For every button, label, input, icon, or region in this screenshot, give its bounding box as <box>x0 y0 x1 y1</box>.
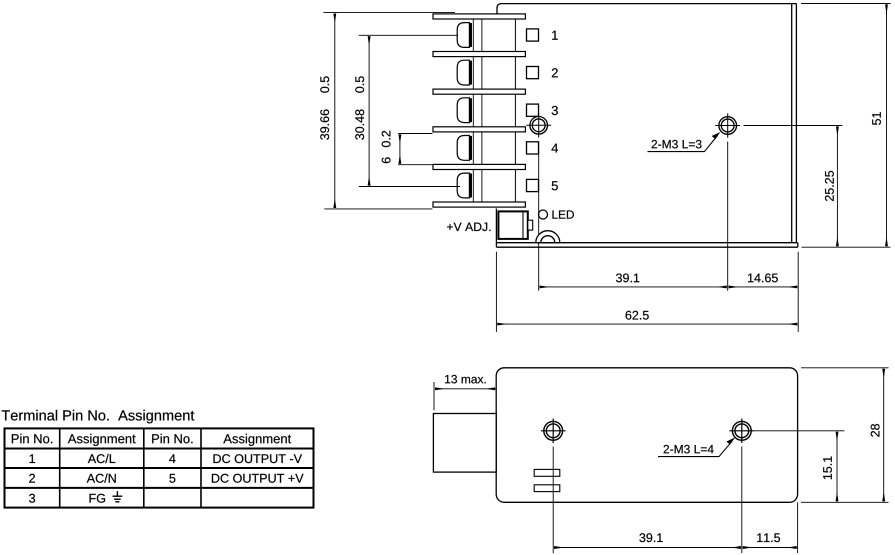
potentiometer +V ADJ <box>447 211 533 239</box>
LED indicator <box>539 210 574 219</box>
dimension 25.25 <box>825 126 837 246</box>
table row 3 <box>29 494 105 503</box>
earth ground symbol after FG <box>113 491 123 502</box>
dimension 39.66 0.5 extension lines <box>324 12 456 14</box>
mounting hole H3 bottom view <box>541 419 566 443</box>
top view chassis outline <box>496 4 797 248</box>
table row 2 <box>29 473 303 482</box>
pin number labels 1-5 <box>551 31 558 191</box>
leader 2-M3 L=4 <box>658 437 735 456</box>
dimension 30.48 0.5 extension lines <box>359 34 458 36</box>
table title <box>2 410 195 424</box>
bottom view chassis outline <box>496 368 797 503</box>
table row 1 <box>30 454 302 463</box>
table row 0 <box>12 434 291 446</box>
dimension 11.5 <box>743 533 797 547</box>
dimension 6 0.2 extension lines <box>398 133 432 135</box>
dimension 28 <box>871 369 884 502</box>
H2 vertical centerline <box>727 142 729 291</box>
dimension extension lines below top view <box>495 252 497 332</box>
H2 horizontal centerline extension <box>744 125 843 127</box>
mounting hole H4 bottom view <box>729 419 754 443</box>
dimension 13 max <box>434 375 495 410</box>
terminal screws <box>457 23 471 198</box>
terminal block cell vertical lines <box>473 19 515 202</box>
dimension 39.1 top view <box>540 273 727 286</box>
bottom view terminal block <box>433 414 496 473</box>
H1 vertical centerline <box>538 142 540 291</box>
terminal pin assignment table <box>5 428 314 507</box>
dimension 62.5 <box>497 311 797 324</box>
H4 horizontal centerline extension <box>754 430 844 432</box>
dimension 15.1 <box>823 432 837 502</box>
dimension 39.66 0.5 <box>320 14 335 209</box>
pin squares 1-5 <box>527 29 539 192</box>
dimension 51 extension lines <box>801 3 891 5</box>
bottom view right extension line <box>797 502 799 553</box>
dimension 30.48 0.5 <box>355 36 369 185</box>
dimension 14.65 <box>729 273 798 286</box>
dimension 39.1 bottom view <box>554 533 741 547</box>
dimension 6 0.2 <box>382 131 400 164</box>
dimension 51 <box>872 4 886 246</box>
dimension 28 extension lines <box>801 367 889 369</box>
vent slots <box>534 469 560 491</box>
cable grommet arcs on bottom edge <box>536 231 560 243</box>
H4 vertical centerline <box>741 447 743 554</box>
leader 2-M3 L=3 <box>648 132 721 152</box>
terminal block separator bars <box>433 14 525 207</box>
mounting hole H1 top view <box>526 113 551 137</box>
H3 vertical centerline <box>552 447 554 554</box>
mounting hole H2 top view <box>715 113 740 137</box>
